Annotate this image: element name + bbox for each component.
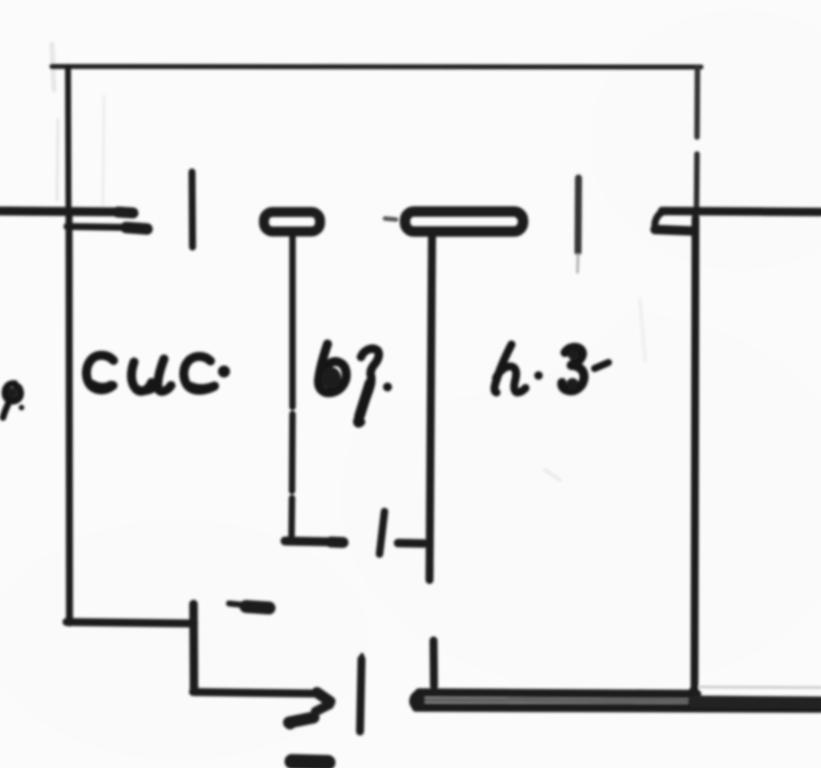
tick top taper (360, 655, 365, 666)
wall: right exterior vertical (695, 218, 696, 690)
label h3: dash after 3 (595, 363, 609, 369)
wall: step lower horizontal (193, 692, 314, 694)
wall: left exterior vertical upper (65, 67, 72, 210)
wall end hook wedge (317, 693, 330, 702)
label bj: letter j (357, 349, 378, 424)
label bj: period (383, 383, 392, 392)
bottom wall: right thicker fill (694, 702, 821, 703)
door head stroke below left wall (67, 227, 136, 228)
wall: right upper vertical (lower segment) (694, 154, 700, 209)
faint scan smudges (52, 44, 645, 480)
wall: step vertical (189, 604, 198, 690)
label h3: dot after h (534, 371, 543, 380)
letter u bottom join (138, 385, 158, 391)
wall: left exterior vertical lower (66, 210, 74, 623)
left margin glyph dot (19, 405, 25, 411)
door leaf tick (bj door) (380, 512, 385, 555)
label h3: digit 3 (562, 347, 584, 391)
right wall head bend (655, 212, 663, 228)
partition wall below lintel 2 (430, 237, 433, 580)
bottom wall: top stroke (419, 693, 697, 695)
label h3: letter h (495, 345, 526, 393)
wall: left horizontal going off-image (0, 211, 132, 212)
bottom wall cap fill (410, 693, 425, 708)
wall end bold tip (118, 212, 133, 213)
lintel 2 bold right end (519, 214, 523, 229)
label cuc: trailing dot (218, 366, 230, 378)
right wall foot bend (686, 686, 695, 695)
thick dash near step (taper lead) (229, 604, 249, 606)
bottom wall: gray core (424, 700, 690, 701)
door jamb dash above bottom wall (430, 641, 439, 687)
label cuc: letter c2 (184, 356, 214, 390)
label cuc: letter u (131, 359, 171, 391)
door leaf tick (bottom door) (360, 659, 362, 732)
bottom wall: left round cap (413, 693, 421, 708)
letter c2 bottom exit (191, 386, 215, 389)
wall end hook step (316, 705, 330, 712)
bj bottom wall bold end (331, 537, 343, 549)
hook bold dash (289, 718, 314, 723)
bj room bottom wall (285, 541, 339, 542)
digit 3 top blob (568, 350, 579, 361)
left margin glyph (3, 383, 21, 417)
wall: top exterior horizontal (52, 64, 701, 70)
wall: right horizontal to image edge (662, 211, 821, 212)
right wall head hook (655, 230, 694, 232)
small faint dash left of lintel 2 (385, 219, 396, 220)
thick dash near step (bold) (246, 607, 269, 609)
letter j bold descender (360, 383, 371, 416)
letter c1 heavy bottom (92, 385, 111, 388)
door head bold right end (126, 228, 147, 230)
wall pier lintel 1 (hollow) (264, 212, 320, 232)
bj door right jamb (398, 539, 424, 548)
left margin glyph core (8, 388, 18, 399)
label cuc: letter c1 (86, 355, 113, 390)
hook tip blob (284, 718, 296, 730)
letter b fill (321, 367, 341, 389)
bottom wall: bottom stroke full width (416, 708, 821, 709)
label bj: letter b (318, 344, 346, 393)
partition wall below lintel 1 (292, 236, 293, 539)
wall pier lintel 2 (hollow) (405, 212, 523, 232)
handwritten annotations (3, 344, 609, 423)
wall: left bottom step horizontal (67, 622, 195, 624)
bottom wall: faint top edge right part (700, 686, 821, 689)
door leaf tick 1 (189, 172, 197, 247)
bottom thick dash (clipped) (292, 762, 328, 763)
digit 3 bottom blob (567, 378, 579, 390)
wall: right upper vertical (upper segment) (694, 67, 700, 137)
faint tail of tick 2 (576, 255, 580, 272)
door leaf tick 2 (575, 178, 583, 252)
